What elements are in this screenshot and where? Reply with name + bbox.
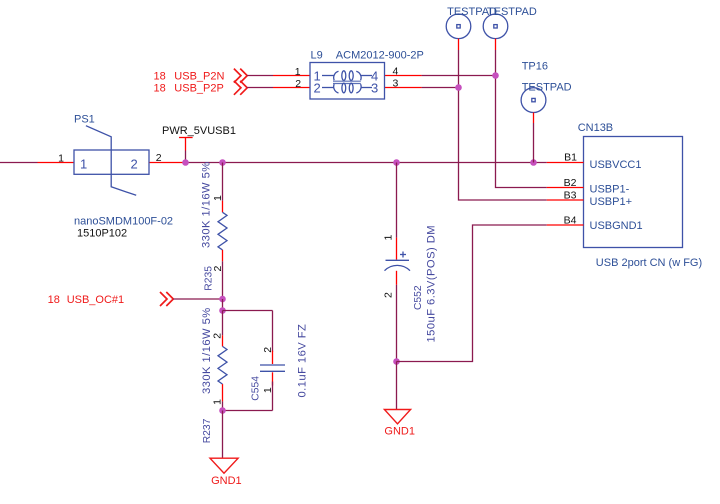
wire: C554 branch bottom horizontal <box>223 410 273 412</box>
svg-text:B4: B4 <box>564 214 577 226</box>
svg-text:330K 1/16W 5%: 330K 1/16W 5% <box>201 307 213 394</box>
wire: node to C554 branch <box>222 299 224 311</box>
junction USB_OC#1 node <box>219 296 226 303</box>
winding bottom <box>322 83 372 93</box>
svg-text:TP16: TP16 <box>522 61 548 73</box>
svg-text:USBGND1: USBGND1 <box>590 220 643 232</box>
wire: choke pin4 to junction <box>422 75 496 77</box>
svg-text:2: 2 <box>262 347 274 353</box>
svg-text:USB 2port CN (w FG): USB 2port CN (w FG) <box>596 257 702 269</box>
power symbol PWR_5VUSB1 <box>179 138 193 163</box>
svg-text:2: 2 <box>212 333 224 339</box>
svg-text:150uF 6.3V(POS) DM: 150uF 6.3V(POS) DM <box>426 225 438 343</box>
svg-text:1: 1 <box>295 66 301 78</box>
svg-text:L9: L9 <box>311 49 323 61</box>
junction C554 branch top <box>219 307 226 314</box>
junction at R235 top <box>219 159 226 166</box>
svg-text:USB_P2P: USB_P2P <box>174 83 224 95</box>
svg-text:ACM2012-900-2P: ACM2012-900-2P <box>336 49 424 61</box>
svg-text:3: 3 <box>393 78 399 90</box>
svg-text:1: 1 <box>262 387 274 393</box>
svg-text:B3: B3 <box>564 190 577 202</box>
resistor R237 <box>218 311 227 411</box>
wire: main net left feed <box>0 162 38 164</box>
junction choke pin4 / testpad <box>492 72 499 79</box>
connector CN13B <box>547 137 683 248</box>
svg-text:1: 1 <box>58 153 64 165</box>
svg-text:1: 1 <box>383 235 395 241</box>
svg-text:2: 2 <box>156 152 162 164</box>
svg-text:B1: B1 <box>564 151 577 163</box>
junction C554 branch bottom <box>219 407 226 414</box>
junction at TP16 <box>530 159 537 166</box>
wire: C554 branch top horizontal <box>223 310 273 312</box>
off-page arrow USB_P2N <box>234 69 247 83</box>
winding top <box>322 71 372 81</box>
svg-text:PWR_5VUSB1: PWR_5VUSB1 <box>162 125 236 137</box>
svg-text:0.1uF 16V FZ: 0.1uF 16V FZ <box>297 324 309 398</box>
wire: C552 bottom to GND1 <box>396 362 398 410</box>
svg-text:C552: C552 <box>413 285 424 310</box>
svg-text:1510P102: 1510P102 <box>77 228 127 240</box>
svg-text:2: 2 <box>383 292 395 298</box>
C552 plus sign <box>400 252 406 258</box>
svg-text:2: 2 <box>212 266 224 272</box>
wire: USB_P2N to choke pin1 <box>247 75 273 77</box>
testpad TESTPAD (right) <box>483 14 508 50</box>
wire: TP16 to main net <box>533 123 535 163</box>
junction choke pin3 / testpad <box>455 84 462 91</box>
svg-text:USBVCC1: USBVCC1 <box>590 159 642 171</box>
svg-text:USB_OC#1: USB_OC#1 <box>67 294 124 306</box>
core lines <box>333 81 361 83</box>
capacitor C552 <box>385 163 411 362</box>
wire: R237 to GND1 <box>222 411 224 459</box>
junction at power symbol <box>182 159 189 166</box>
common-mode choke L9 <box>273 63 422 100</box>
svg-text:PS1: PS1 <box>74 114 95 126</box>
svg-text:nanoSMDM100F-02: nanoSMDM100F-02 <box>74 216 173 228</box>
svg-text:2: 2 <box>295 78 301 90</box>
svg-text:USB_P2N: USB_P2N <box>174 71 224 83</box>
off-page arrow USB_OC#1 <box>160 292 173 306</box>
svg-text:18: 18 <box>154 71 166 83</box>
wire: right testpad down to USBP1- <box>496 50 547 188</box>
svg-text:C554: C554 <box>250 376 261 401</box>
svg-text:GND1: GND1 <box>384 425 415 437</box>
svg-text:18: 18 <box>154 83 166 95</box>
svg-text:USBP1+: USBP1+ <box>590 196 633 208</box>
junction at C552 top <box>393 159 400 166</box>
svg-text:18: 18 <box>48 294 60 306</box>
svg-text:1: 1 <box>212 399 224 405</box>
svg-text:R237: R237 <box>202 418 213 443</box>
capacitor C554 <box>260 311 285 411</box>
junction C552 bottom node <box>393 358 400 365</box>
wire: main horizontal net at y=162 <box>186 162 547 164</box>
svg-text:330K 1/16W 5%: 330K 1/16W 5% <box>201 161 213 248</box>
svg-text:TESTPAD: TESTPAD <box>522 81 572 93</box>
resistor R235 <box>218 163 227 300</box>
testpad TESTPAD (left) <box>446 14 471 50</box>
ground GND1 (middle) <box>384 410 410 424</box>
wire: choke pin3 to junction <box>422 87 459 89</box>
wire: USBGND1 net from B4 to C552 node <box>397 225 547 362</box>
svg-text:3: 3 <box>371 81 378 96</box>
wire: USB_P2P to choke pin2 <box>247 87 273 89</box>
svg-text:CN13B: CN13B <box>578 122 613 134</box>
svg-text:USBP1-: USBP1- <box>590 183 630 195</box>
testpad TP16 <box>521 88 546 123</box>
svg-text:2: 2 <box>131 157 138 172</box>
svg-text:1: 1 <box>80 157 87 172</box>
wire: USB_OC#1 to R235/R237 node <box>173 298 222 300</box>
off-page arrow USB_P2P <box>234 81 247 95</box>
ground GND1 (left) <box>210 458 238 473</box>
svg-text:2: 2 <box>314 81 321 96</box>
fuse PS1 <box>38 126 186 196</box>
wire: left testpad down to USBP1+ <box>459 50 547 200</box>
svg-text:TESTPAD: TESTPAD <box>487 6 537 18</box>
svg-text:1: 1 <box>212 195 224 201</box>
svg-text:4: 4 <box>393 65 399 77</box>
svg-text:B2: B2 <box>564 177 577 189</box>
svg-text:GND1: GND1 <box>211 475 242 487</box>
